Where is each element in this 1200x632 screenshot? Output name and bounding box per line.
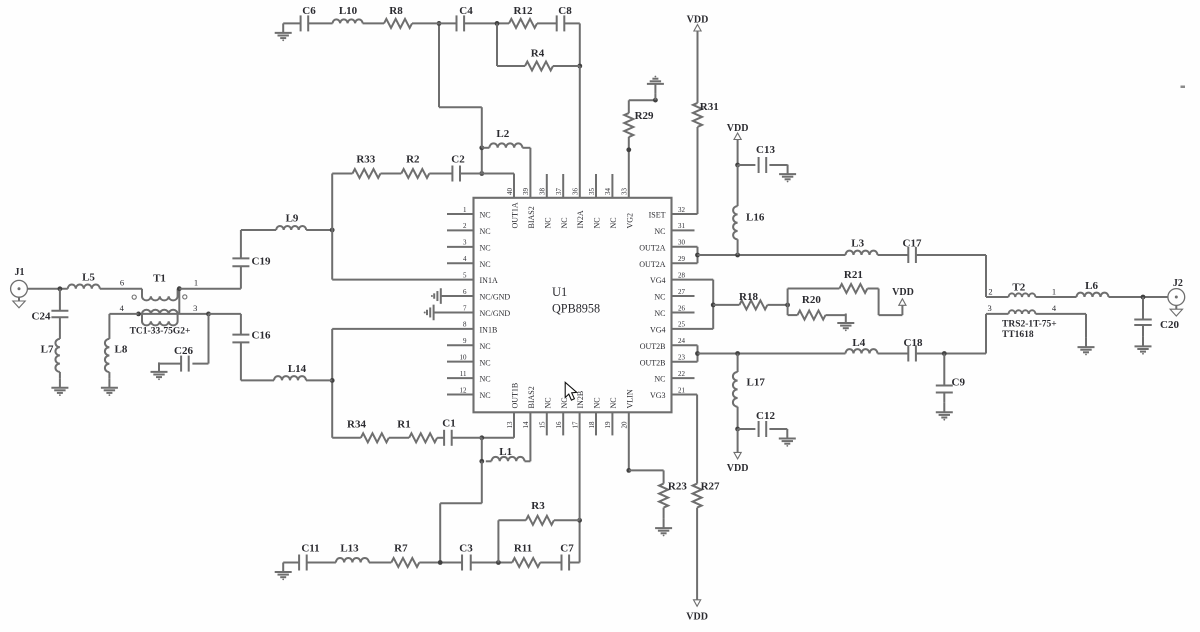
svg-text:NC: NC [560, 217, 569, 228]
svg-text:L6: L6 [1085, 280, 1098, 292]
capacitor C9 [943, 354, 945, 386]
wire R2 to C2 [429, 173, 452, 175]
pin 31 NC (right) [672, 229, 695, 231]
T1 secondary winding upper row [139, 313, 209, 315]
svg-text:16: 16 [555, 421, 563, 429]
svg-text:IN1A: IN1A [480, 276, 498, 285]
svg-text:R11: R11 [514, 543, 532, 555]
svg-text:OUT2B: OUT2B [640, 342, 666, 351]
svg-text:R12: R12 [514, 5, 533, 17]
inductor L6 [1077, 293, 1109, 297]
wire L1 junction down to bottom chain [481, 461, 483, 503]
junction node R3 right [577, 518, 582, 523]
svg-text:L13: L13 [340, 543, 359, 555]
wire T1 pin3 down to C26 [208, 314, 210, 364]
pin 15 NC (bottom) [546, 412, 548, 435]
inductor L2 [482, 147, 490, 149]
resistor R11 [512, 558, 540, 567]
svg-text:C6: C6 [302, 5, 316, 17]
wire C1 to R1 [437, 437, 444, 439]
wire L3 to C17 [878, 254, 909, 256]
pin 35 NC (top) [595, 174, 597, 198]
svg-text:30: 30 [678, 239, 686, 247]
capacitor C7 [561, 555, 563, 571]
pin 16 NC (bottom) [562, 412, 564, 435]
svg-text:OUT1A: OUT1A [511, 202, 520, 228]
wire C2 junction to pin40 OUT1A [460, 173, 514, 175]
svg-text:R31: R31 [700, 101, 719, 113]
inductor L7 [55, 339, 59, 372]
wire R11 to C7 [540, 562, 561, 564]
junction node C3/R3 [496, 560, 501, 565]
capacitor C24 [59, 289, 61, 311]
wire R33 left bend [332, 173, 352, 175]
svg-text:C8: C8 [558, 5, 572, 17]
svg-text:VG3: VG3 [650, 391, 666, 400]
wire IN2A drop to pin36 [579, 66, 581, 198]
capacitor C8 [556, 15, 558, 31]
node dot on VG2 wire [626, 147, 631, 152]
resistor R33 [353, 169, 381, 178]
wire L6 to J2 [1109, 296, 1168, 298]
svg-text:C7: C7 [560, 543, 574, 555]
svg-text:L4: L4 [852, 337, 865, 349]
svg-text:TT1618: TT1618 [1002, 330, 1034, 340]
svg-text:NC: NC [654, 293, 665, 302]
svg-text:21: 21 [678, 386, 686, 394]
svg-text:9: 9 [463, 337, 467, 345]
wire to R20 [788, 314, 798, 316]
ground bottom-left chain [282, 563, 284, 573]
svg-text:QPB8958: QPB8958 [552, 302, 600, 316]
inductor L14 [306, 379, 332, 381]
svg-text:R21: R21 [844, 269, 863, 281]
junction node R8/C4 [437, 21, 442, 26]
wire R3 right lead [554, 519, 580, 521]
svg-text:8: 8 [463, 321, 467, 329]
junction node R29/gnd [653, 98, 658, 103]
resistor R21 [839, 284, 867, 293]
svg-text:VG4: VG4 [650, 276, 666, 285]
inductor L5 [68, 284, 100, 288]
svg-text:C3: C3 [459, 543, 473, 555]
power VDD (top, R31) [694, 25, 701, 32]
junction node R18/R20/R21 [785, 303, 790, 308]
power VDD (R21) [899, 299, 906, 306]
svg-text:R2: R2 [406, 154, 420, 166]
svg-text:VDD: VDD [727, 123, 749, 134]
svg-text:NC: NC [480, 227, 491, 236]
pin 26 NC (right) [672, 311, 695, 313]
svg-text:4: 4 [463, 255, 467, 263]
svg-text:C26: C26 [174, 345, 193, 357]
svg-text:23: 23 [678, 353, 686, 361]
wire R8 to C4 [412, 22, 457, 24]
svg-text:R29: R29 [635, 110, 654, 122]
wire L2 right to pin39 BIAS2 [522, 147, 530, 149]
svg-text:3: 3 [193, 303, 197, 313]
svg-text:VDD: VDD [727, 463, 749, 474]
resistor R7 [391, 558, 419, 567]
junction node C2/L2/OUT1A [479, 171, 484, 176]
wire to R21 [788, 288, 840, 290]
svg-text:BIAS2: BIAS2 [527, 206, 536, 228]
svg-text:ISET: ISET [649, 211, 666, 220]
pin 2 NC (left) [447, 229, 474, 231]
svg-text:VG2: VG2 [625, 213, 634, 229]
svg-text:NC: NC [480, 211, 491, 220]
wire L4 to C18 [878, 353, 909, 355]
resistor R27 [693, 484, 702, 508]
svg-text:13: 13 [506, 421, 514, 429]
svg-text:VG4: VG4 [650, 325, 666, 334]
inductor L13 [336, 558, 369, 562]
pin 37 NC (top) [562, 174, 564, 198]
svg-text:2: 2 [988, 287, 992, 297]
wire riser to R33 row [331, 174, 333, 231]
svg-text:37: 37 [555, 188, 563, 196]
wire R29 top jog [628, 100, 630, 113]
svg-text:14: 14 [522, 421, 530, 429]
capacitor C26 [180, 356, 182, 372]
svg-text:34: 34 [604, 188, 612, 196]
svg-text:R27: R27 [701, 481, 720, 493]
resistor R8 [384, 19, 412, 28]
svg-text:31: 31 [678, 222, 686, 230]
pin 1 NC (left) [447, 213, 474, 215]
wire R12 to C8 [537, 22, 557, 24]
svg-text:OUT2B: OUT2B [640, 358, 666, 367]
wire R1 to R34 [389, 437, 409, 439]
wire OUT2A line to L3 [698, 254, 846, 256]
svg-text:L9: L9 [286, 213, 299, 225]
svg-text:22: 22 [678, 370, 686, 378]
svg-text:10: 10 [460, 353, 468, 361]
junction node L17/OUT2B [735, 351, 740, 356]
junction node C3 left [438, 560, 443, 565]
wire VG4 to R18 [713, 304, 739, 306]
wire C26 to ground [159, 363, 181, 365]
svg-text:T2: T2 [1012, 281, 1025, 293]
transformer T1 primary winding [142, 289, 178, 301]
ground below L7 [59, 378, 61, 388]
wire C8 to IN2A drop [564, 22, 580, 24]
svg-text:C19: C19 [252, 256, 271, 268]
wire C19 to L9 [241, 229, 276, 231]
wire L2 junction riser to top feedback [481, 107, 483, 148]
ground top-left chain [282, 23, 284, 33]
resistor R20 [798, 311, 826, 320]
wire R7 to C3 [419, 562, 462, 564]
pin 3 NC (left) [447, 246, 474, 248]
svg-text:L3: L3 [851, 238, 864, 250]
wire C11 to L13 [307, 562, 336, 564]
svg-text:C17: C17 [903, 238, 922, 250]
svg-text:NC: NC [609, 217, 618, 228]
svg-text:J2: J2 [1173, 278, 1183, 289]
wire C7 to pin17 riser [569, 562, 580, 564]
wire pins30/29 OUT2A bracket [672, 246, 698, 248]
svg-text:NC: NC [480, 375, 491, 384]
T1 phase dot right [183, 295, 187, 299]
node T1 pin 3 [206, 312, 211, 317]
wire pin20 VLIN down [628, 412, 630, 470]
svg-text:VDD: VDD [892, 287, 914, 298]
pin 7 NC/GND (left) [434, 311, 474, 313]
svg-text:TC1-33-75G2+: TC1-33-75G2+ [130, 326, 191, 336]
svg-text:NC: NC [480, 260, 491, 269]
svg-text:NC: NC [543, 217, 552, 228]
svg-text:R20: R20 [802, 294, 821, 306]
svg-text:7: 7 [463, 304, 467, 312]
wire IN1B riser [331, 329, 333, 438]
capacitor C20 [1142, 297, 1144, 319]
resistor R18 [739, 300, 767, 309]
capacitor C3 [461, 555, 463, 571]
ground right of C12 [786, 429, 788, 439]
junction node L16/OUT2A [735, 253, 740, 258]
node T1 pin 4 [136, 312, 141, 317]
svg-text:11: 11 [460, 370, 467, 378]
svg-text:VDD: VDD [686, 612, 708, 623]
svg-text:R1: R1 [397, 418, 410, 430]
wire L10 to R8 [363, 22, 384, 24]
svg-text:38: 38 [539, 188, 547, 196]
svg-text:VDD: VDD [687, 15, 709, 26]
svg-text:NC/GND: NC/GND [480, 309, 511, 318]
wire pin33 VG2 up to R29 [628, 137, 630, 198]
svg-text:5: 5 [463, 271, 467, 279]
wire pin32 ISET to R31 [672, 213, 698, 215]
svg-text:C9: C9 [952, 377, 966, 389]
resistor R31 [693, 103, 702, 127]
wire L1 right to pin14 BIAS2 [525, 460, 531, 462]
svg-text:6: 6 [463, 288, 467, 296]
ground right of C13 [787, 165, 789, 175]
svg-text:19: 19 [604, 421, 612, 429]
svg-text:R34: R34 [347, 418, 366, 430]
svg-text:NC: NC [593, 217, 602, 228]
T1 vertical link pin1 to pin3 row [178, 289, 180, 314]
capacitor C1 [443, 430, 445, 446]
junction node VG4 bracket [711, 303, 716, 308]
pin 11 NC (left) [447, 377, 474, 379]
svg-text:29: 29 [678, 255, 686, 263]
svg-text:R18: R18 [739, 291, 758, 303]
svg-text:R23: R23 [668, 481, 687, 493]
svg-text:OUT2A: OUT2A [639, 243, 665, 252]
svg-text:C1: C1 [442, 418, 455, 430]
svg-text:33: 33 [621, 188, 629, 196]
capacitor C4 [456, 15, 458, 31]
wire gnd to C11 [283, 562, 299, 564]
wire C3 to R11 [471, 562, 512, 564]
wire C4 to R12 [464, 22, 509, 24]
wire T2 pin4 to ground [1036, 313, 1087, 315]
svg-text:IN1B: IN1B [480, 325, 498, 334]
transformer T2 secondary [1009, 310, 1036, 314]
svg-text:C20: C20 [1160, 319, 1179, 331]
T1 secondary winding lower row [142, 314, 178, 326]
svg-text:L16: L16 [746, 212, 765, 224]
svg-text:NC: NC [654, 227, 665, 236]
svg-text:C13: C13 [756, 144, 775, 156]
resistor R3 [526, 516, 554, 525]
svg-text:1: 1 [1052, 287, 1056, 297]
wire OUT2B line to L4 [698, 353, 846, 355]
wire R4 right lead [553, 65, 580, 67]
pin 18 NC (bottom) [595, 412, 597, 435]
pin 22 NC (right) [672, 377, 695, 379]
wire R4 left riser [497, 65, 525, 67]
inductor L3 [846, 251, 878, 255]
wire R31 to VDD [697, 31, 699, 103]
pin 12 NC (left) [447, 393, 474, 395]
wire T2 pin1 to L6 [1036, 296, 1077, 298]
svg-text:NC: NC [480, 358, 491, 367]
svg-text:24: 24 [678, 337, 686, 345]
power VDD (C13/L16) [734, 133, 741, 140]
svg-text:NC: NC [480, 243, 491, 252]
resistor R1 [409, 433, 437, 442]
wire C16 up to T1 pin3 [240, 314, 242, 335]
svg-text:NC: NC [609, 397, 618, 408]
wire IN1A riser and lead [331, 230, 333, 280]
svg-text:C4: C4 [459, 5, 473, 17]
svg-text:NC: NC [480, 342, 491, 351]
op-amp U1 QPB8958 chip body [474, 198, 672, 412]
junction node R4 right / IN2A [577, 64, 582, 69]
inductor L16 [737, 165, 739, 206]
capacitor C17 [907, 247, 909, 263]
inductor L1 [492, 457, 525, 461]
svg-text:26: 26 [678, 304, 686, 312]
svg-text:17: 17 [571, 421, 579, 429]
resistor R29 [624, 113, 633, 137]
pin 34 NC (top) [611, 174, 613, 198]
junction node VLIN/R23 [626, 468, 631, 473]
pin 10 NC (left) [447, 361, 474, 363]
svg-text:40: 40 [506, 188, 514, 196]
svg-text:25: 25 [678, 321, 686, 329]
pin 27 NC (right) [672, 295, 695, 297]
ground below C9 [943, 403, 945, 413]
wire R3 left riser [498, 519, 526, 521]
pin 19 NC (bottom) [611, 412, 613, 435]
junction node C4/R4 [495, 21, 500, 26]
wire C1 right [452, 437, 482, 439]
svg-text:L14: L14 [288, 363, 307, 375]
wire T1 pin1 to C19 [179, 288, 241, 290]
svg-text:OUT2A: OUT2A [639, 260, 665, 269]
power VDD (below L17, arrow down) [737, 429, 739, 452]
pin 38 NC (top) [546, 174, 548, 198]
junction C24 node [58, 286, 63, 291]
junction node L14/IN1B/R34 [330, 378, 335, 383]
svg-text:36: 36 [571, 188, 579, 196]
inductor L8 [105, 339, 109, 372]
pin 9 NC (left) [447, 344, 474, 346]
pin 4 NC (left) [447, 262, 474, 264]
inductor L10 [333, 19, 363, 23]
svg-text:L10: L10 [339, 5, 358, 17]
svg-text:R7: R7 [394, 543, 408, 555]
wire C2 junction up to L2 [481, 148, 483, 174]
wire pins28/25 VG4 bracket [672, 279, 714, 281]
wire gnd to C6 [283, 22, 300, 24]
wire R20 to ground [826, 314, 846, 316]
svg-text:R4: R4 [531, 48, 545, 60]
wire T1 pin4 to L8 [109, 313, 138, 315]
svg-text:C11: C11 [301, 543, 319, 555]
svg-text:L5: L5 [82, 271, 95, 283]
svg-text:C24: C24 [32, 311, 51, 323]
svg-text:TRS2-1T-75+: TRS2-1T-75+ [1002, 320, 1057, 330]
svg-text:6: 6 [120, 277, 124, 287]
svg-text:NC: NC [560, 397, 569, 408]
svg-text:IN2B: IN2B [576, 391, 585, 409]
svg-text:U1: U1 [552, 285, 567, 299]
svg-text:T1: T1 [153, 273, 166, 285]
wire C17 to T2 pin2 [916, 254, 986, 256]
wire R27 to VDD down [696, 508, 698, 600]
junction node L2 left [479, 145, 484, 150]
capacitor C16 [232, 334, 249, 336]
pin 6 NC/GND (left) [441, 295, 474, 297]
connector J2 [1168, 289, 1185, 306]
svg-text:IN2A: IN2A [576, 210, 585, 228]
connector J1 [11, 280, 28, 297]
junction node VDD/C13 [735, 163, 740, 168]
wire R33 to R2 [381, 173, 402, 175]
ground above R29 [654, 93, 656, 100]
inductor L17 [737, 354, 739, 373]
svg-text:12: 12 [460, 386, 468, 394]
junction node C1/pin13/L1 [479, 435, 484, 440]
capacitor C13 [738, 164, 756, 166]
svg-text:39: 39 [522, 188, 530, 196]
svg-text:NC: NC [543, 397, 552, 408]
capacitor C2 [451, 166, 453, 182]
junction node C20 [1141, 295, 1146, 300]
resistor R34 [361, 433, 389, 442]
ground below L8 [108, 378, 110, 388]
wire VLIN to R23 [629, 469, 664, 471]
junction node L17/C12/VDD [735, 427, 740, 432]
wire R23 to ground [663, 508, 665, 519]
svg-text:2: 2 [463, 222, 467, 230]
svg-text:NC: NC [593, 397, 602, 408]
ground below C20 [1142, 337, 1144, 347]
capacitor C18 [907, 346, 909, 362]
svg-text:27: 27 [678, 288, 686, 296]
power VDD (below R27, arrow down) [694, 600, 701, 607]
svg-text:L7: L7 [41, 344, 54, 356]
wire L13 to R7 [369, 562, 391, 564]
wire pin13 OUT1B bend [513, 412, 515, 438]
svg-text:R8: R8 [389, 5, 403, 17]
svg-text:C16: C16 [252, 330, 271, 342]
stray mark right edge [1181, 86, 1186, 89]
inductor L9 [276, 226, 306, 230]
svg-text:4: 4 [120, 303, 125, 313]
inductor L4 [846, 349, 878, 353]
wire J1 to L5 [27, 288, 67, 290]
node T1 pin 1 [177, 286, 182, 291]
capacitor C19 [232, 257, 249, 259]
T1 phase dot left [132, 295, 136, 299]
svg-text:20: 20 [621, 421, 629, 429]
